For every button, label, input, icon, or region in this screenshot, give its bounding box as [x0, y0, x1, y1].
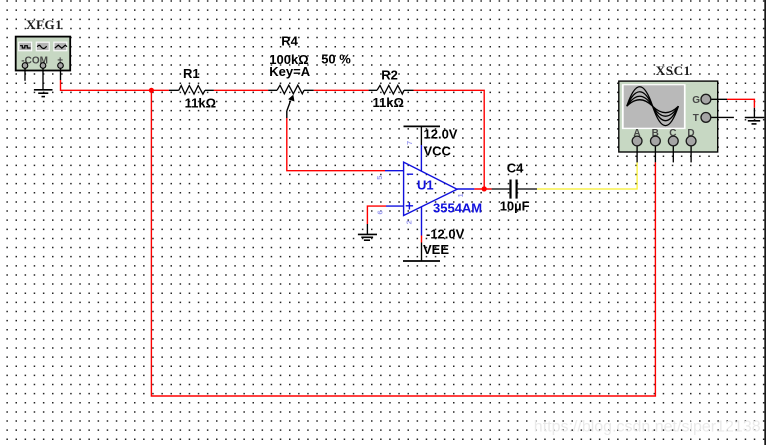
output node junction dot: [482, 186, 487, 191]
wire C4 to XSC1 channel A (yellow): [537, 162, 637, 189]
pin stub COM: [42, 66, 44, 90]
wire node to R1: [151, 89, 169, 91]
wire XFG1 + output down to main node: [61, 80, 152, 90]
svg-text:11kΩ: 11kΩ: [185, 95, 216, 110]
wire XSC1 G to ground: [727, 99, 754, 108]
VCC rail: [404, 126, 441, 145]
svg-text:12.0V: 12.0V: [424, 127, 458, 142]
svg-text:G: G: [692, 95, 700, 106]
svg-text:3554AM: 3554AM: [433, 201, 482, 216]
node junction dot: [149, 88, 154, 93]
pin stub plus: [60, 66, 62, 80]
svg-text:-12.0V: -12.0V: [426, 227, 465, 242]
svg-text:Key=A: Key=A: [269, 64, 310, 79]
wire U1 + input to ground: [367, 206, 386, 224]
svg-text:R2: R2: [381, 68, 398, 83]
oscilloscope XSC1: [619, 81, 734, 162]
ground XFG1 COM: [34, 90, 53, 97]
wire R2 to output node (feedback): [414, 90, 485, 189]
wire R1 to R4: [214, 89, 268, 91]
svg-text:VEE: VEE: [423, 242, 449, 257]
wire R4 to R2: [314, 89, 369, 91]
svg-text:R4: R4: [281, 33, 298, 48]
svg-text:7: 7: [405, 141, 414, 145]
wire R4 wiper to U1 inverting input: [287, 118, 385, 171]
svg-text:1: 1: [456, 193, 465, 197]
ground (XSC1 G): [745, 118, 765, 124]
pin stub G: [706, 98, 727, 100]
svg-text:50 %: 50 %: [321, 52, 351, 67]
ground (U1 + input): [358, 234, 377, 240]
capacitor C4: [492, 180, 537, 199]
wiper arrow: [287, 101, 291, 111]
svg-text:XSC1: XSC1: [656, 63, 691, 78]
svg-text:6: 6: [376, 210, 385, 214]
pin stub T: [706, 116, 734, 118]
pin stub A: [636, 141, 638, 162]
svg-text:T: T: [693, 113, 699, 124]
wire U1 output to C4: [474, 188, 491, 190]
pin stub B: [654, 141, 656, 162]
pin stub D: [690, 141, 692, 162]
op-amp U1: [385, 145, 474, 236]
svg-text:10µF: 10µF: [500, 198, 530, 213]
svg-text:R1: R1: [183, 66, 200, 81]
svg-text:VCC: VCC: [424, 144, 452, 159]
svg-text:https://blog.csdn.net/siper121: https://blog.csdn.net/siper12138: [534, 419, 761, 436]
svg-text:5: 5: [375, 176, 384, 180]
pin stub C: [672, 141, 674, 162]
svg-text:U1: U1: [417, 178, 434, 193]
svg-text:XFG1: XFG1: [26, 17, 62, 32]
resistor R1: [169, 86, 214, 95]
svg-text:C4: C4: [507, 160, 524, 175]
function generator XFG1: [16, 37, 70, 90]
potentiometer R4: [268, 85, 314, 118]
svg-text:2: 2: [405, 220, 414, 224]
pin stub minus: [24, 66, 26, 81]
VEE rail: [403, 236, 440, 262]
resistor R2: [369, 85, 414, 94]
wire node to XSC1 channel B (bottom loop): [151, 90, 655, 396]
svg-text:11kΩ: 11kΩ: [373, 95, 404, 110]
